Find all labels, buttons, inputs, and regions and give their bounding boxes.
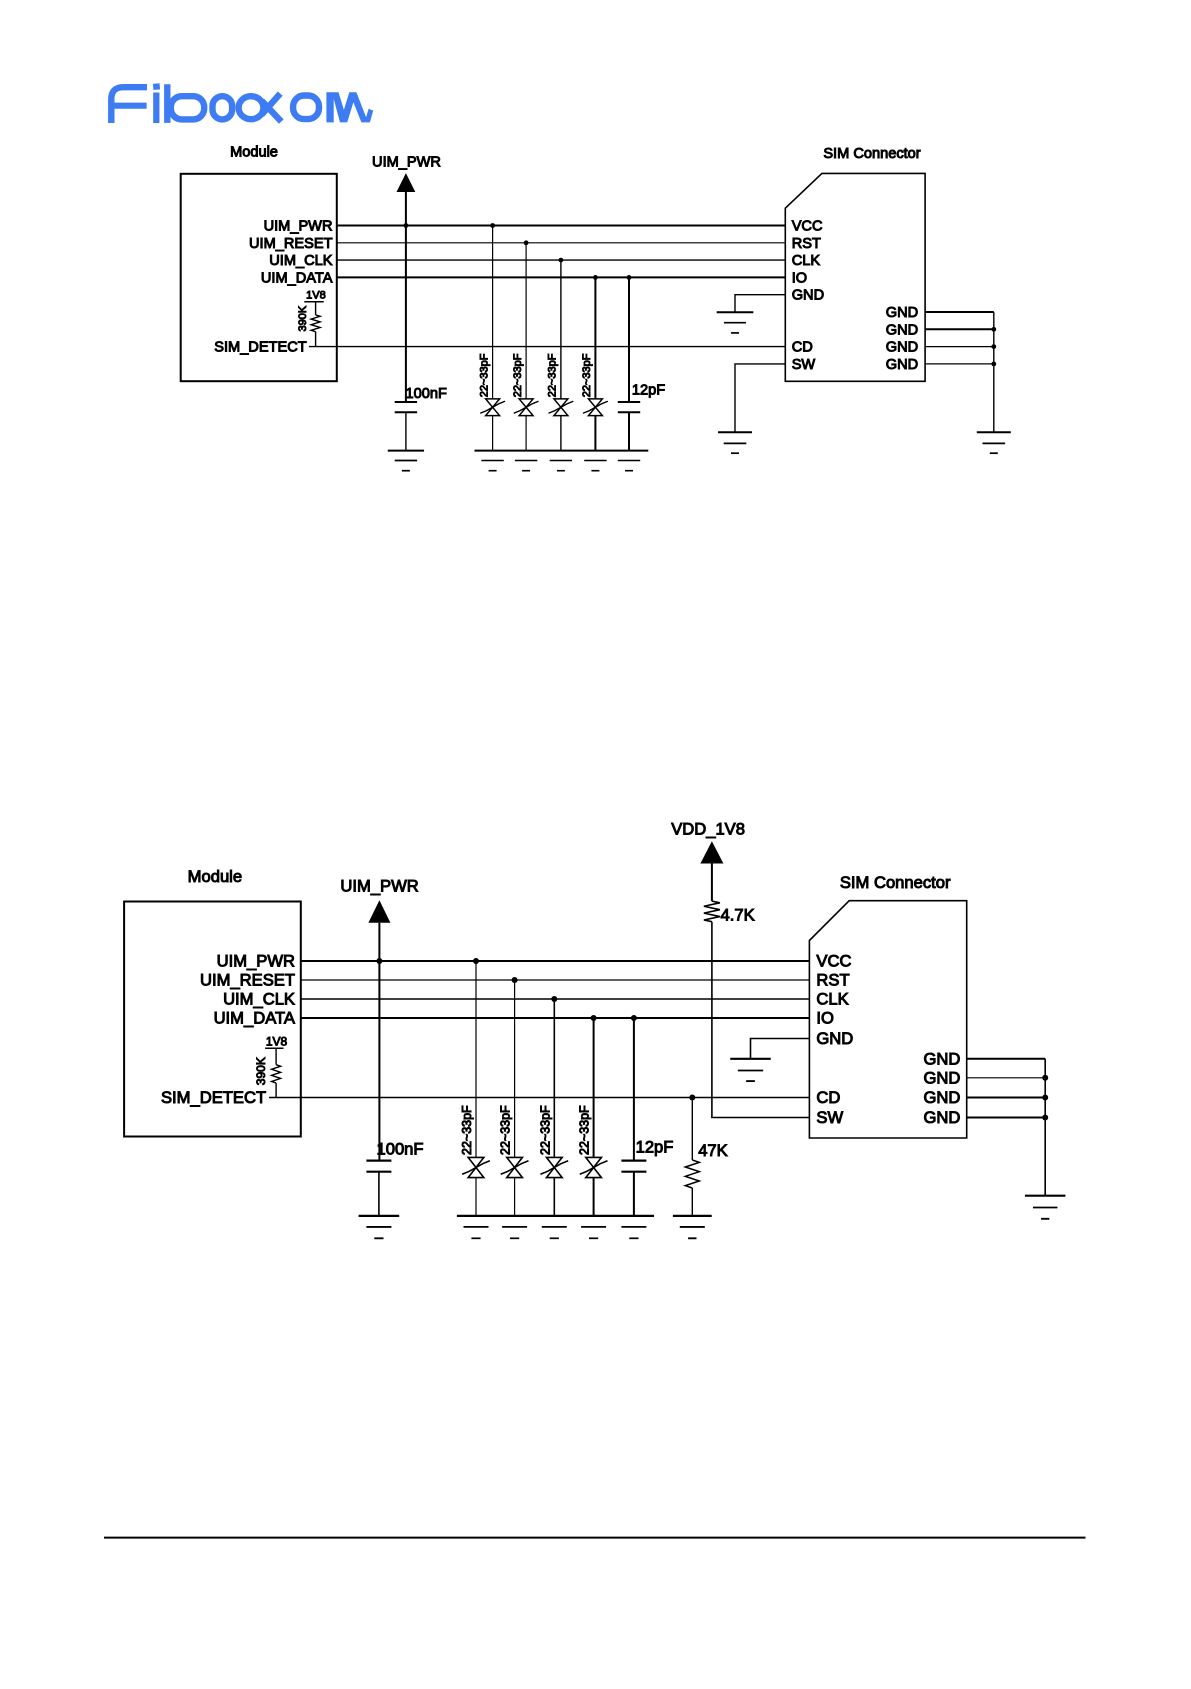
module box (bottom) bbox=[124, 902, 301, 1137]
wire UIM_RESET (top) bbox=[337, 242, 786, 244]
ground bars under column x=593.6 (bottom) bbox=[581, 1226, 606, 1228]
footer rule bbox=[104, 1537, 1086, 1539]
svg-text:100nF: 100nF bbox=[406, 386, 447, 402]
module box (top) bbox=[181, 174, 337, 381]
logo letter i bbox=[153, 83, 160, 90]
SIM connector (top) bbox=[785, 173, 925, 381]
ground (bottom right) bbox=[1025, 1195, 1066, 1197]
wire GND3 right (top) bbox=[925, 346, 994, 348]
wire UIM_DATA (top) bbox=[337, 276, 786, 278]
svg-text:CLK: CLK bbox=[792, 253, 821, 269]
ground (top right) bbox=[977, 431, 1011, 433]
svg-text:UIM_PWR: UIM_PWR bbox=[372, 154, 441, 170]
svg-text:GND: GND bbox=[924, 1108, 961, 1127]
svg-text:GND: GND bbox=[924, 1069, 961, 1088]
TVS diode D2 (top) bbox=[519, 399, 533, 407]
svg-text:22~33pF: 22~33pF bbox=[581, 353, 593, 397]
junction dot D3 (bottom) bbox=[551, 996, 557, 1002]
svg-text:UIM_DATA: UIM_DATA bbox=[214, 1009, 296, 1028]
logo letter F bbox=[111, 87, 147, 123]
logo letters co ligature (alpha) bbox=[239, 96, 264, 119]
resistor 4.7K (bottom) bbox=[704, 901, 720, 922]
wire diode D4 to ground bus (bottom) bbox=[593, 1178, 595, 1216]
ground (top, under SW) bbox=[718, 431, 752, 433]
svg-text:IO: IO bbox=[816, 1009, 834, 1028]
GND collector vertical (top) bbox=[993, 312, 995, 432]
svg-text:22~33pF: 22~33pF bbox=[547, 353, 559, 397]
svg-text:22~33pF: 22~33pF bbox=[512, 353, 524, 397]
svg-text:100nF: 100nF bbox=[377, 1140, 424, 1159]
ground bars under column x=595.4 (top) bbox=[584, 460, 606, 462]
ground under 100nF (bottom) bbox=[359, 1215, 400, 1217]
svg-text:RST: RST bbox=[792, 236, 821, 252]
junction dot D2 (bottom) bbox=[512, 977, 518, 983]
svg-text:22~33pF: 22~33pF bbox=[578, 1105, 592, 1155]
svg-text:GND: GND bbox=[886, 340, 918, 356]
wire 4.7K to SW pin bbox=[712, 922, 810, 1118]
ground under 100nF (top) bbox=[388, 450, 424, 452]
wire SIM_DETECT to CD (bottom) bbox=[269, 1097, 809, 1099]
svg-text:GND: GND bbox=[924, 1050, 961, 1069]
svg-text:RST: RST bbox=[816, 971, 849, 990]
svg-text:UIM_PWR: UIM_PWR bbox=[217, 952, 295, 971]
wire UIM_PWR (bottom) bbox=[301, 960, 810, 962]
svg-text:SIM Connector: SIM Connector bbox=[823, 146, 920, 162]
svg-text:UIM_DATA: UIM_DATA bbox=[261, 270, 333, 286]
svg-text:12pF: 12pF bbox=[636, 1138, 674, 1157]
wire SIM_DETECT to CD (top) bbox=[309, 346, 785, 348]
wire GND3 right (bottom) bbox=[967, 1097, 1045, 1099]
junction dot D4 (bottom) bbox=[591, 1015, 597, 1021]
common ground bus (bottom) bbox=[457, 1215, 654, 1217]
resistor 390K (top) bbox=[315, 302, 317, 315]
ground bars under column x=633.9 (bottom) bbox=[621, 1226, 646, 1228]
svg-text:4.7K: 4.7K bbox=[721, 906, 755, 925]
GND pin wire to ground (top) bbox=[735, 295, 785, 313]
svg-text:1V8: 1V8 bbox=[306, 290, 326, 302]
wire diode D4 to ground bus (top) bbox=[594, 416, 596, 451]
ground bars under column x=560.9 (top) bbox=[550, 460, 572, 462]
svg-text:SIM_DETECT: SIM_DETECT bbox=[161, 1088, 266, 1107]
svg-text:IO: IO bbox=[792, 270, 807, 286]
TVS diode D1 (top) bbox=[486, 399, 500, 407]
wire diode D1 to ground bus (bottom) bbox=[475, 1178, 477, 1216]
junction dot D1 (bottom) bbox=[473, 958, 479, 964]
svg-text:390K: 390K bbox=[254, 1057, 268, 1085]
svg-text:GND: GND bbox=[886, 357, 918, 373]
ground bars under column x=629.0 (top) bbox=[618, 460, 640, 462]
ground (bottom, under GND pin) bbox=[730, 1058, 771, 1060]
wire UIM_PWR (top) bbox=[337, 225, 786, 227]
junction dot D3 (top) bbox=[559, 258, 564, 263]
svg-text:22~33pF: 22~33pF bbox=[538, 1105, 552, 1155]
wire to diode D3 (bottom) bbox=[553, 999, 555, 1157]
svg-text:1V8: 1V8 bbox=[266, 1034, 288, 1048]
svg-text:22~33pF: 22~33pF bbox=[478, 353, 490, 397]
wire diode D2 to ground bus (bottom) bbox=[514, 1178, 516, 1216]
capacitor 12pF (bottom) bbox=[631, 1015, 637, 1021]
svg-text:UIM_PWR: UIM_PWR bbox=[340, 877, 418, 896]
TVS diode D3 (top) bbox=[554, 399, 568, 407]
TVS diode D1 (bottom) bbox=[468, 1157, 484, 1167]
wire to diode D2 (top) bbox=[525, 243, 527, 399]
TVS diode D4 (top) bbox=[588, 399, 602, 407]
svg-text:Module: Module bbox=[188, 867, 242, 886]
logo letter b bbox=[164, 84, 170, 123]
SIM connector (bottom) bbox=[809, 901, 966, 1138]
resistor 47K (bottom) bbox=[689, 1095, 695, 1101]
svg-text:22~33pF: 22~33pF bbox=[499, 1105, 513, 1155]
svg-text:UIM_RESET: UIM_RESET bbox=[249, 236, 333, 252]
junction dot D1 (top) bbox=[490, 223, 495, 228]
junction dots on UIM_PWR (top) bbox=[404, 223, 409, 228]
svg-text:GND: GND bbox=[816, 1029, 853, 1048]
svg-text:12pF: 12pF bbox=[632, 382, 665, 398]
wire UIM_DATA (bottom) bbox=[301, 1017, 810, 1019]
svg-text:VCC: VCC bbox=[792, 219, 823, 235]
svg-text:GND: GND bbox=[886, 322, 918, 338]
svg-text:GND: GND bbox=[792, 288, 824, 304]
ground bars under column x=554.3 (bottom) bbox=[542, 1226, 567, 1228]
svg-text:VDD_1V8: VDD_1V8 bbox=[671, 820, 745, 839]
logo letter o (first) bbox=[213, 96, 233, 119]
svg-text:UIM_PWR: UIM_PWR bbox=[264, 219, 333, 235]
ground (top, under GND pin) bbox=[717, 311, 754, 313]
svg-text:SIM_DETECT: SIM_DETECT bbox=[214, 340, 307, 356]
ground under 47K (bottom) bbox=[673, 1215, 712, 1217]
wire GND4 right (top) bbox=[925, 363, 994, 365]
svg-text:GND: GND bbox=[924, 1088, 961, 1107]
svg-text:UIM_CLK: UIM_CLK bbox=[269, 253, 333, 269]
svg-text:SW: SW bbox=[792, 357, 816, 373]
svg-text:47K: 47K bbox=[698, 1141, 728, 1160]
wire GND2 right (bottom) bbox=[967, 1077, 1045, 1079]
wire diode D3 to ground bus (top) bbox=[560, 416, 562, 451]
svg-text:VCC: VCC bbox=[816, 952, 851, 971]
svg-text:CD: CD bbox=[792, 340, 813, 356]
ground bars under column x=514.6 (bottom) bbox=[502, 1226, 527, 1228]
svg-text:390K: 390K bbox=[297, 305, 309, 331]
logo letter m bbox=[326, 92, 373, 122]
TVS diode D2 (bottom) bbox=[507, 1157, 523, 1167]
wire to diode D4 (top) bbox=[594, 277, 596, 399]
svg-text:GND: GND bbox=[886, 305, 918, 321]
logo letter o (second) bbox=[293, 96, 319, 120]
common ground bus (top) bbox=[475, 450, 649, 452]
wire to diode D1 (bottom) bbox=[475, 961, 477, 1157]
junction dot D4 (top) bbox=[593, 275, 598, 280]
wire GND1 right (top) bbox=[925, 311, 994, 313]
wire to diode D2 (bottom) bbox=[514, 980, 516, 1157]
wire diode D3 to ground bus (bottom) bbox=[553, 1178, 555, 1216]
wire diode D2 to ground bus (top) bbox=[525, 416, 527, 451]
GND pin wire to ground (bottom) bbox=[751, 1039, 810, 1059]
svg-text:SW: SW bbox=[816, 1108, 843, 1127]
capacitor 12pF (top) bbox=[627, 275, 632, 280]
svg-text:CLK: CLK bbox=[816, 990, 848, 1009]
svg-text:UIM_CLK: UIM_CLK bbox=[223, 990, 295, 1009]
TVS diode D3 (bottom) bbox=[546, 1157, 562, 1167]
ground bars under column x=476.0 (bottom) bbox=[464, 1226, 489, 1228]
wire GND4 right (bottom) bbox=[967, 1117, 1045, 1119]
wire to diode D3 (top) bbox=[560, 260, 562, 399]
svg-text:SIM Connector: SIM Connector bbox=[840, 873, 951, 892]
SW pin wire to ground (top) bbox=[735, 364, 785, 432]
wire to diode D1 (top) bbox=[492, 226, 494, 399]
wire UIM_CLK (bottom) bbox=[301, 998, 810, 1000]
svg-text:CD: CD bbox=[816, 1088, 840, 1107]
svg-text:22~33pF: 22~33pF bbox=[460, 1105, 474, 1155]
svg-text:UIM_RESET: UIM_RESET bbox=[200, 971, 295, 990]
ground bars under column x=526.1 (top) bbox=[515, 460, 537, 462]
wire diode D1 to ground bus (top) bbox=[492, 416, 494, 451]
resistor 390K (bottom) bbox=[275, 1048, 277, 1064]
junction dot D2 (top) bbox=[524, 240, 529, 245]
wire UIM_CLK (top) bbox=[337, 259, 786, 261]
wire GND2 right (top) bbox=[925, 328, 994, 330]
wire UIM_RESET (bottom) bbox=[301, 979, 810, 981]
svg-text:Module: Module bbox=[230, 144, 278, 160]
wire to diode D4 (bottom) bbox=[593, 1018, 595, 1157]
TVS diode D4 (bottom) bbox=[586, 1157, 602, 1167]
GND collector vertical (bottom) bbox=[1044, 1059, 1046, 1196]
1V8 rail (top) bbox=[304, 301, 323, 303]
wire GND1 right (bottom) bbox=[967, 1058, 1045, 1060]
1V8 rail (bottom) bbox=[265, 1047, 283, 1049]
ground bars under column x=492.6 (top) bbox=[481, 460, 503, 462]
